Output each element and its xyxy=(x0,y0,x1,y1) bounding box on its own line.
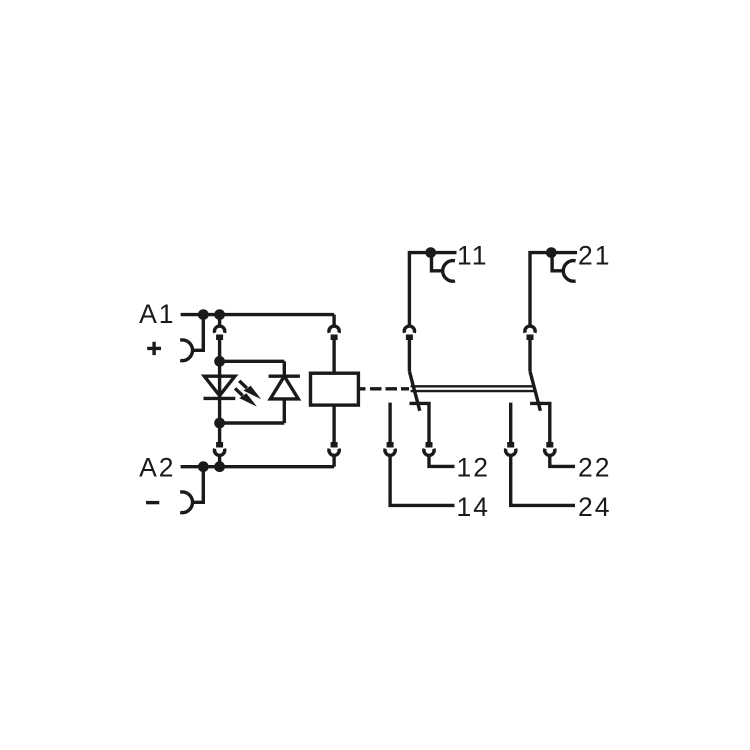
wire LED branch lower xyxy=(218,423,221,442)
LED light arrow 1 xyxy=(239,381,261,399)
contact 2 NO stub xyxy=(509,403,512,442)
svg-text:A1: A1 xyxy=(139,299,175,329)
label 22 xyxy=(578,452,611,482)
wire freewheel diode branch lower xyxy=(283,399,286,423)
wire A1 to plus terminal socket xyxy=(192,315,203,351)
contact 1 NO stub xyxy=(388,403,391,442)
mechanical link double line between poles xyxy=(411,386,535,391)
plug connector socket contact 22 xyxy=(545,449,555,456)
svg-text:24: 24 xyxy=(578,492,611,522)
wire A2 horizontal to coil column xyxy=(181,465,335,468)
plug connector socket coil top xyxy=(329,326,339,333)
wire terminal 24 xyxy=(511,455,575,505)
label 21 xyxy=(578,240,611,270)
plug connector pin contact 14 xyxy=(387,442,394,448)
mechanical link dashed line from coil xyxy=(358,387,412,390)
wire coil branch to A2 xyxy=(332,455,335,467)
wire terminal 11 horizontal xyxy=(409,253,456,326)
terminal socket 11 xyxy=(443,261,455,282)
plug connector pin contact 24 xyxy=(507,442,514,448)
wire coil to bottom connector xyxy=(332,405,335,442)
relay coil K1 xyxy=(311,373,359,405)
wire A2 to minus terminal socket xyxy=(192,467,203,503)
wire coil branch upper xyxy=(332,315,335,326)
contact 2 movable blade xyxy=(530,371,540,411)
contact 1 movable blade xyxy=(409,371,419,411)
label A2 xyxy=(139,453,175,483)
label minus sign xyxy=(146,501,159,504)
wire terminal 12 xyxy=(429,455,455,466)
label 24 xyxy=(578,492,611,522)
wire contact 2 common lower xyxy=(528,340,531,371)
plug connector pin LED branch top xyxy=(216,335,223,341)
node terminal 11 dot xyxy=(425,247,436,258)
wire terminal 21 horizontal xyxy=(530,253,577,326)
plug connector socket contact 14 xyxy=(385,449,395,456)
wire LED cathode vertical xyxy=(218,398,221,423)
terminal socket minus xyxy=(180,492,192,513)
label 14 xyxy=(457,492,490,522)
plug connector socket contact 1 common xyxy=(404,326,414,333)
diode V1 triangle xyxy=(270,376,298,399)
svg-text:22: 22 xyxy=(578,452,611,482)
plug connector socket LED branch bottom xyxy=(214,449,224,456)
plug connector socket contact 12 xyxy=(424,449,434,456)
contact 1 NC bar xyxy=(410,403,430,442)
plug connector pin contact 1 common xyxy=(406,335,413,341)
node A2 junction dot 1 xyxy=(198,461,209,472)
plug connector pin contact 12 xyxy=(426,442,433,448)
wire contact 1 common lower xyxy=(408,340,411,371)
wire terminal 14 xyxy=(390,455,454,505)
wire LED anode vertical xyxy=(218,361,221,376)
diode V1 cathode bar xyxy=(269,375,300,378)
node LED loop bottom dot xyxy=(214,418,225,429)
node LED loop top dot xyxy=(214,356,225,367)
node A1 junction dot 2 xyxy=(214,309,225,320)
label plus sign xyxy=(147,342,161,355)
wire terminal 11 socket lead xyxy=(432,253,444,271)
plug connector pin coil top xyxy=(331,335,338,341)
LED D1 cathode bar xyxy=(204,397,236,400)
plug connector socket coil bottom xyxy=(329,449,339,456)
plug connector pin contact 2 common xyxy=(527,335,534,341)
plug connector pin contact 22 xyxy=(546,442,553,448)
wire connector to coil xyxy=(332,340,335,373)
plug connector pin LED branch bottom xyxy=(216,442,223,448)
terminal socket plus xyxy=(180,340,192,361)
wire LED branch upper xyxy=(218,315,221,326)
wire freewheel diode branch upper xyxy=(283,361,286,376)
plug connector socket contact 2 common xyxy=(525,326,535,333)
svg-text:21: 21 xyxy=(578,240,611,270)
plug connector socket contact 24 xyxy=(506,449,516,456)
plug connector socket LED branch top xyxy=(214,326,224,333)
wire LED branch to A2 xyxy=(218,455,221,467)
plug connector pin coil bottom xyxy=(331,442,338,448)
LED light arrow 2 xyxy=(235,388,257,406)
label 11 xyxy=(457,240,489,270)
svg-text:14: 14 xyxy=(457,492,490,522)
label A1 xyxy=(139,299,175,329)
contact 2 NC bar xyxy=(530,403,550,442)
node terminal 21 dot xyxy=(546,247,557,258)
wire LED branch to loop xyxy=(218,340,221,361)
wire terminal 22 xyxy=(550,455,575,466)
svg-text:A2: A2 xyxy=(139,453,175,483)
label 12 xyxy=(457,452,490,482)
node A2 junction dot 2 xyxy=(214,461,225,472)
terminal socket 21 xyxy=(563,261,575,282)
wire LED through symbol xyxy=(218,376,221,398)
node A1 junction dot 1 xyxy=(198,309,209,320)
wire terminal 21 socket lead xyxy=(552,253,564,271)
wire loop bottom horizontal xyxy=(220,421,285,424)
wire loop top horizontal xyxy=(220,360,285,363)
svg-text:12: 12 xyxy=(457,452,490,482)
svg-text:11: 11 xyxy=(457,240,489,270)
LED D1 triangle xyxy=(204,376,235,395)
wire A1 horizontal to coil column xyxy=(181,313,335,316)
